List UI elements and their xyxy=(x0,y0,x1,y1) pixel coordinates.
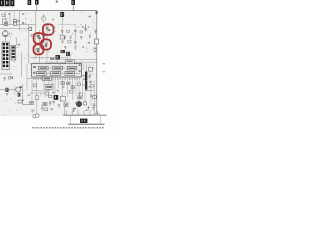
resistor R33 xyxy=(44,108,48,111)
wire: IC internal ticks xyxy=(46,68,80,73)
wire: horizontal y=59.6 xyxy=(50,59,97,61)
crystal X1 (dark box on wire) xyxy=(5,88,8,96)
resistor R2 xyxy=(13,22,16,25)
connector J2 (black block near x=36) xyxy=(35,0,39,5)
capacitor C14 xyxy=(49,101,51,106)
node speck x=86 y=110 xyxy=(86,110,88,111)
transistor Q2 (dark) xyxy=(76,101,82,106)
wire: horizontal y=74 left xyxy=(0,73,12,75)
wire: horizontal y=63.5 xyxy=(45,63,82,65)
scan noise speckle xyxy=(1,12,97,116)
capacitor C20 xyxy=(41,108,43,111)
wire: stubs to bottom rail xyxy=(66,110,98,116)
wire: dashed bottom edge xyxy=(32,127,104,129)
diode D2 xyxy=(87,106,89,109)
switch S2 small box xyxy=(2,14,5,17)
resistor R36 xyxy=(68,40,71,43)
wire from J3 to top rail xyxy=(72,5,74,11)
wire: horizontal y=62.2 xyxy=(45,61,97,63)
wire: bottom rail 1 y=115 xyxy=(63,114,107,116)
label text 7F xyxy=(50,57,54,60)
wire: verticals bottom right xyxy=(79,92,95,115)
test point TP1 (gray circle above ring A) xyxy=(42,15,46,23)
node speck x=22 y=13 xyxy=(22,13,24,15)
wire: vertical long x=28.8 xyxy=(28,24,30,63)
node dots right of ring A xyxy=(53,27,55,28)
node speck x=84 y=84 xyxy=(84,84,86,85)
node speck top corner xyxy=(56,1,58,3)
node speck x=57 y=90 xyxy=(57,90,59,91)
wire: vertical through ring cluster x=39.5 xyxy=(39,30,41,58)
resistor R30 (box under C7) xyxy=(60,35,64,39)
wire: horizontal y=24.2 mid-right xyxy=(58,23,76,25)
wire: vertical x=21.4 mid-left xyxy=(20,52,22,77)
IC U1 sub-block 1 xyxy=(39,66,49,70)
diode D3 xyxy=(92,108,95,111)
capacitor C21 group below right xyxy=(78,92,82,96)
wire: left vertical x=14.8 xyxy=(14,85,16,95)
resistor R24 xyxy=(67,82,70,85)
resistor R18 xyxy=(83,102,86,105)
node marks x=51 y=109 xyxy=(51,109,53,111)
capacitor C4 (inside ring B) xyxy=(37,33,40,39)
resistor R7 (dark box at x=67 y=52) xyxy=(66,52,70,56)
capacitor C10 xyxy=(74,42,77,43)
node speck x=74 y=108 xyxy=(74,108,76,110)
wire: vertical x=75.2 upper xyxy=(74,24,76,46)
amplifier A1 (box below IC) xyxy=(43,76,52,80)
node speck x=82 y=46 xyxy=(82,46,84,47)
IC U1 sub-block 4 xyxy=(37,71,47,75)
connector J1 (top-left black label blocks) xyxy=(0,0,31,7)
IC U1 sub-block 2 xyxy=(53,66,63,70)
node specks inside IC right xyxy=(79,64,81,66)
resistor R2a xyxy=(13,20,16,22)
connector CN2 (second pin table) xyxy=(11,46,16,61)
wire: vertical from rail x=19.7 xyxy=(19,11,21,31)
node tick at x=96 xyxy=(96,11,98,14)
annotation circle 3 (ring C) xyxy=(41,39,51,49)
resistor R8 (box above IC right) xyxy=(66,59,74,63)
wire: verticals feeding IC top xyxy=(57,52,70,64)
annotation circle 1 (ring A) xyxy=(43,24,54,35)
capacitor C5 (inside ring C) xyxy=(45,43,48,47)
connector CN1 (left pin table) xyxy=(2,42,9,70)
resistor R13 xyxy=(43,102,47,105)
wire from J2 to top rail xyxy=(36,5,38,11)
capacitor C25 xyxy=(80,36,82,39)
wire: bottom-left rail y=89.8 xyxy=(0,89,16,91)
capacitor C1b marks near x=10 y=33 xyxy=(10,32,12,36)
capacitor C7 xyxy=(61,31,63,35)
capacitor C27 xyxy=(4,78,6,81)
wire: IC top pin stubs xyxy=(34,62,80,64)
transformer T1 (dark box at x=19 y=93) xyxy=(18,93,21,97)
diode D1 xyxy=(72,108,74,112)
IC U1 sub-block 6 xyxy=(65,71,75,75)
wire: right border vertical rail xyxy=(96,11,98,114)
capacitor C11 xyxy=(84,24,86,31)
node speck x=28 y=95 xyxy=(28,95,30,96)
resistor R27 on right border xyxy=(93,96,96,99)
resistor R32 xyxy=(45,92,49,95)
ground G4 xyxy=(52,102,55,104)
annotation circle 4 (ring D) xyxy=(34,44,44,54)
node tick on x=22.7 xyxy=(22,100,24,102)
resistor R16 xyxy=(64,103,68,106)
ground G2 xyxy=(74,47,77,49)
resistor R6 (dark box at x=57 y=55.5) xyxy=(56,55,61,60)
resistor R14 (dark box) xyxy=(54,95,59,100)
wire: upper-left horizontal wire y=28.6 xyxy=(0,28,29,30)
wire: vertical x=62.2 upper xyxy=(61,17,63,31)
node speck x=8 y=13 xyxy=(8,13,10,15)
switch S1 (outlined box upper-left) xyxy=(2,19,6,25)
node speck x=18 y=44 xyxy=(18,44,20,46)
capacitor C13 xyxy=(88,75,91,79)
speaker SP1 xyxy=(16,86,22,92)
inductor L1 (thick dark bar) xyxy=(85,72,87,91)
IC U1 sub-block 3 xyxy=(67,66,77,70)
capacitor C23 xyxy=(62,87,64,88)
annotation circle 2 (ring B) xyxy=(34,33,44,44)
capacitor C1 xyxy=(22,22,26,24)
ground G1 xyxy=(61,41,64,43)
resistor R35 xyxy=(90,84,93,87)
capacitor C15 xyxy=(90,95,92,96)
capacitor C24 xyxy=(17,20,19,21)
resistor R26 xyxy=(78,83,81,86)
resistor R9 xyxy=(89,67,93,71)
resistor R37 xyxy=(33,84,36,87)
relay K1 (dark box under rail at x=62) xyxy=(60,11,64,17)
resistor R11 xyxy=(18,100,22,103)
capacitor C9 xyxy=(74,31,77,32)
wire: IC bottom pin stubs xyxy=(34,77,80,80)
resistor R22 small xyxy=(80,31,82,33)
wire: vertical through ring cluster x=47 xyxy=(46,23,48,64)
wire: rail link verticals xyxy=(71,115,101,124)
wire: bar top connection xyxy=(85,64,87,72)
IC U1 (large block) xyxy=(32,64,82,78)
resistor R20 small mark xyxy=(89,16,91,18)
resistor R5 marks near right border xyxy=(94,48,97,50)
resistor R25 xyxy=(71,86,74,89)
capacitor C6 (inside ring D) xyxy=(36,49,39,53)
resistor R21 small xyxy=(67,30,70,32)
resistor R34 xyxy=(70,90,73,93)
IC U1 pin marks left xyxy=(33,66,36,68)
wire: horizontal y=93 xyxy=(30,93,50,96)
wire: long vertical x=35.8 xyxy=(35,11,37,58)
resistor R1 xyxy=(4,22,7,25)
wire: vertical x=16.4 xyxy=(15,38,17,46)
capacitor C17 xyxy=(89,35,91,38)
resistor R17 xyxy=(78,96,82,99)
resistor R28 xyxy=(49,95,52,98)
capacitor C12 xyxy=(94,30,96,34)
wire: IC bottom long verticals xyxy=(27,64,95,114)
node speck x=52 y=19 xyxy=(52,19,54,20)
wire: horizontal y=90.8 xyxy=(32,90,50,92)
label block (black title under rail) xyxy=(80,119,87,123)
node specks row y=27 xyxy=(82,26,84,27)
capacitor C16 xyxy=(70,36,72,39)
resistor R19 marks right margin xyxy=(103,63,105,64)
microphone MC1 (circle symbol) xyxy=(3,30,9,41)
capacitor C2 pair near y=77 xyxy=(9,76,13,79)
wire: upper-left horizontal wire y=24.4 xyxy=(0,23,36,25)
resistor R38 xyxy=(35,96,39,99)
capacitor C8 xyxy=(64,36,66,40)
resistor R15 xyxy=(60,96,65,101)
scan haze tint xyxy=(0,11,97,117)
wire: x=64.8 down to rail xyxy=(64,106,66,115)
ground G3 xyxy=(31,110,34,112)
IC U1 sub-block 5 xyxy=(51,71,61,75)
capacitor C19 on right border xyxy=(93,104,96,108)
node marks right of bar xyxy=(89,86,91,87)
node marks x=88 y=42 xyxy=(88,42,90,44)
resistor R3 xyxy=(29,28,32,31)
node tick right of R3 xyxy=(31,34,34,36)
resistor R23 xyxy=(61,82,64,85)
wire: horizontal y=78.5 left xyxy=(27,78,43,80)
wire: horizontal y=57.8 below rings xyxy=(30,58,67,62)
wire: comb verticals from top rail xyxy=(6,11,14,25)
node marks x=52 y=92 xyxy=(52,92,54,94)
resistor R10 (box) xyxy=(45,84,53,89)
wire: verticals right of IC xyxy=(83,64,93,76)
wire: bar bottom tick xyxy=(85,90,94,92)
resistor R12 xyxy=(30,101,34,104)
transistor Q1 xyxy=(33,114,39,118)
capacitor C26 xyxy=(64,46,66,49)
capacitor C3 (inside ring A) xyxy=(46,27,51,31)
connector J3 (black block near x=73) xyxy=(71,0,75,5)
resistor R4 (box on right border) xyxy=(95,39,99,44)
wire: corner at x=22.7 xyxy=(23,84,30,104)
capacitor C18 xyxy=(89,82,92,83)
wire: bottom rail 2 y=124.2 xyxy=(68,123,105,125)
capacitor C22 xyxy=(58,105,60,108)
wire: top horizontal rail xyxy=(0,10,97,12)
resistor R31 (dark box x=61 y=50) xyxy=(61,50,66,53)
wire: right border bottom tick xyxy=(94,113,100,115)
node mark xyxy=(42,105,44,106)
